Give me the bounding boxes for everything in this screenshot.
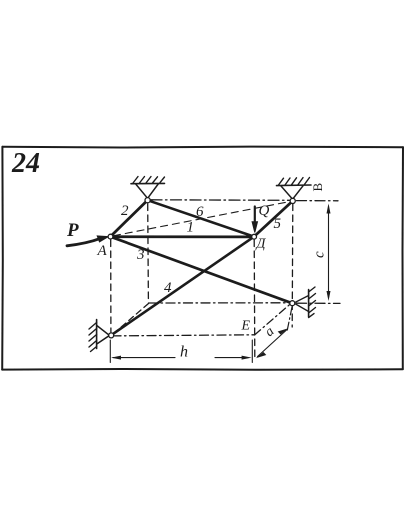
svg-text:24: 24 [11, 148, 40, 179]
svg-text:2: 2 [121, 203, 129, 219]
dimension a lower arrow [256, 352, 267, 358]
svg-text:B: B [310, 183, 325, 192]
support B1 hatching [133, 177, 165, 184]
bar 1 [111, 235, 255, 238]
dashed depth edge rear-left [113, 304, 149, 335]
bar 3 [111, 237, 293, 304]
dashed vertical below node B1 [147, 204, 150, 301]
border frame [2, 147, 403, 370]
dashed vertical A to lower-left support node [110, 240, 112, 332]
bar 6 [148, 200, 255, 236]
dash-dot extension right of wall node [297, 302, 341, 304]
svg-text:5: 5 [274, 216, 282, 232]
svg-text:E: E [241, 319, 251, 334]
svg-text:4: 4 [164, 280, 172, 296]
svg-text:Q: Q [259, 203, 270, 219]
svg-text:6: 6 [196, 204, 204, 220]
dash-dot extension below wall node [287, 307, 292, 330]
wall E2 triangle links [294, 296, 309, 312]
dash-dot extension right of B2 [297, 200, 339, 202]
svg-text:h: h [180, 344, 188, 361]
dash-dot line B1 to B2 [151, 199, 290, 202]
node B2 [290, 198, 295, 203]
support F triangle [97, 326, 110, 345]
support B2 triangle [281, 186, 303, 199]
support F wall line [96, 320, 98, 349]
dimension a upper arrow [278, 328, 289, 334]
dashed depth edge E to wall node [255, 304, 291, 335]
support B1 ceiling line [131, 182, 165, 184]
node F lower-left [109, 333, 114, 338]
dimension b right arrow [242, 356, 252, 360]
dimension b extension left [109, 340, 111, 363]
svg-text:1: 1 [187, 220, 195, 236]
node D [252, 234, 257, 239]
support F hatching [89, 323, 97, 352]
dashed vertical D to E [253, 240, 256, 357]
node B1 [145, 198, 150, 203]
dimension c line [328, 206, 330, 298]
svg-text:P: P [66, 220, 79, 241]
dashed rear bottom edge [149, 302, 292, 304]
wall support at node E2 [308, 290, 310, 318]
svg-text:c: c [312, 251, 328, 258]
svg-text:Д: Д [255, 237, 267, 252]
dashed front bottom edge [112, 335, 255, 336]
support B2 ceiling line [277, 184, 312, 187]
dimension b extension right [251, 340, 253, 363]
bar 5 [254, 201, 293, 237]
dimension c top arrow [327, 204, 331, 214]
node E2 wall [290, 301, 295, 306]
dimension a line [258, 330, 287, 357]
force Q arrow [254, 207, 256, 225]
dimension c bottom arrow [327, 291, 331, 301]
bar 4 [111, 237, 254, 336]
dashed diagonal A to B2 [114, 202, 291, 236]
support B2 hatching [279, 178, 310, 186]
dashed vertical B2 to wall node [291, 204, 294, 327]
svg-text:3: 3 [136, 247, 145, 263]
support B1 triangle [136, 184, 159, 198]
svg-text:A: A [97, 243, 108, 259]
node A [108, 234, 113, 239]
dimension b left arrow [111, 356, 121, 360]
force P arrow [67, 238, 101, 246]
wall E2 hatching [309, 287, 316, 318]
bar 2 [111, 200, 148, 236]
dimension b line [113, 357, 248, 359]
